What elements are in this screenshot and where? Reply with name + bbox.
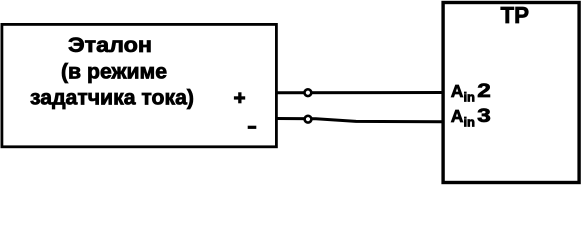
polarity label - (minus terminal) [248, 126, 257, 129]
polarity label + (plus terminal) [234, 92, 245, 103]
terminal node circle on plus wire [305, 89, 312, 96]
wire plus: Эталон + to Ain2 [277, 91, 443, 94]
wire minus: Эталон - to Ain3 [277, 119, 443, 122]
block "Эталон" (current-setting reference source) [2, 24, 277, 146]
svg-text:Эталон: Эталон [68, 34, 152, 57]
svg-text:(в режиме: (в режиме [61, 61, 167, 84]
svg-text:ТР: ТР [501, 2, 530, 28]
svg-text:задатчика тока): задатчика тока) [30, 87, 194, 110]
terminal node circle on minus wire [305, 116, 312, 123]
block ТР (transducer) [443, 3, 579, 183]
